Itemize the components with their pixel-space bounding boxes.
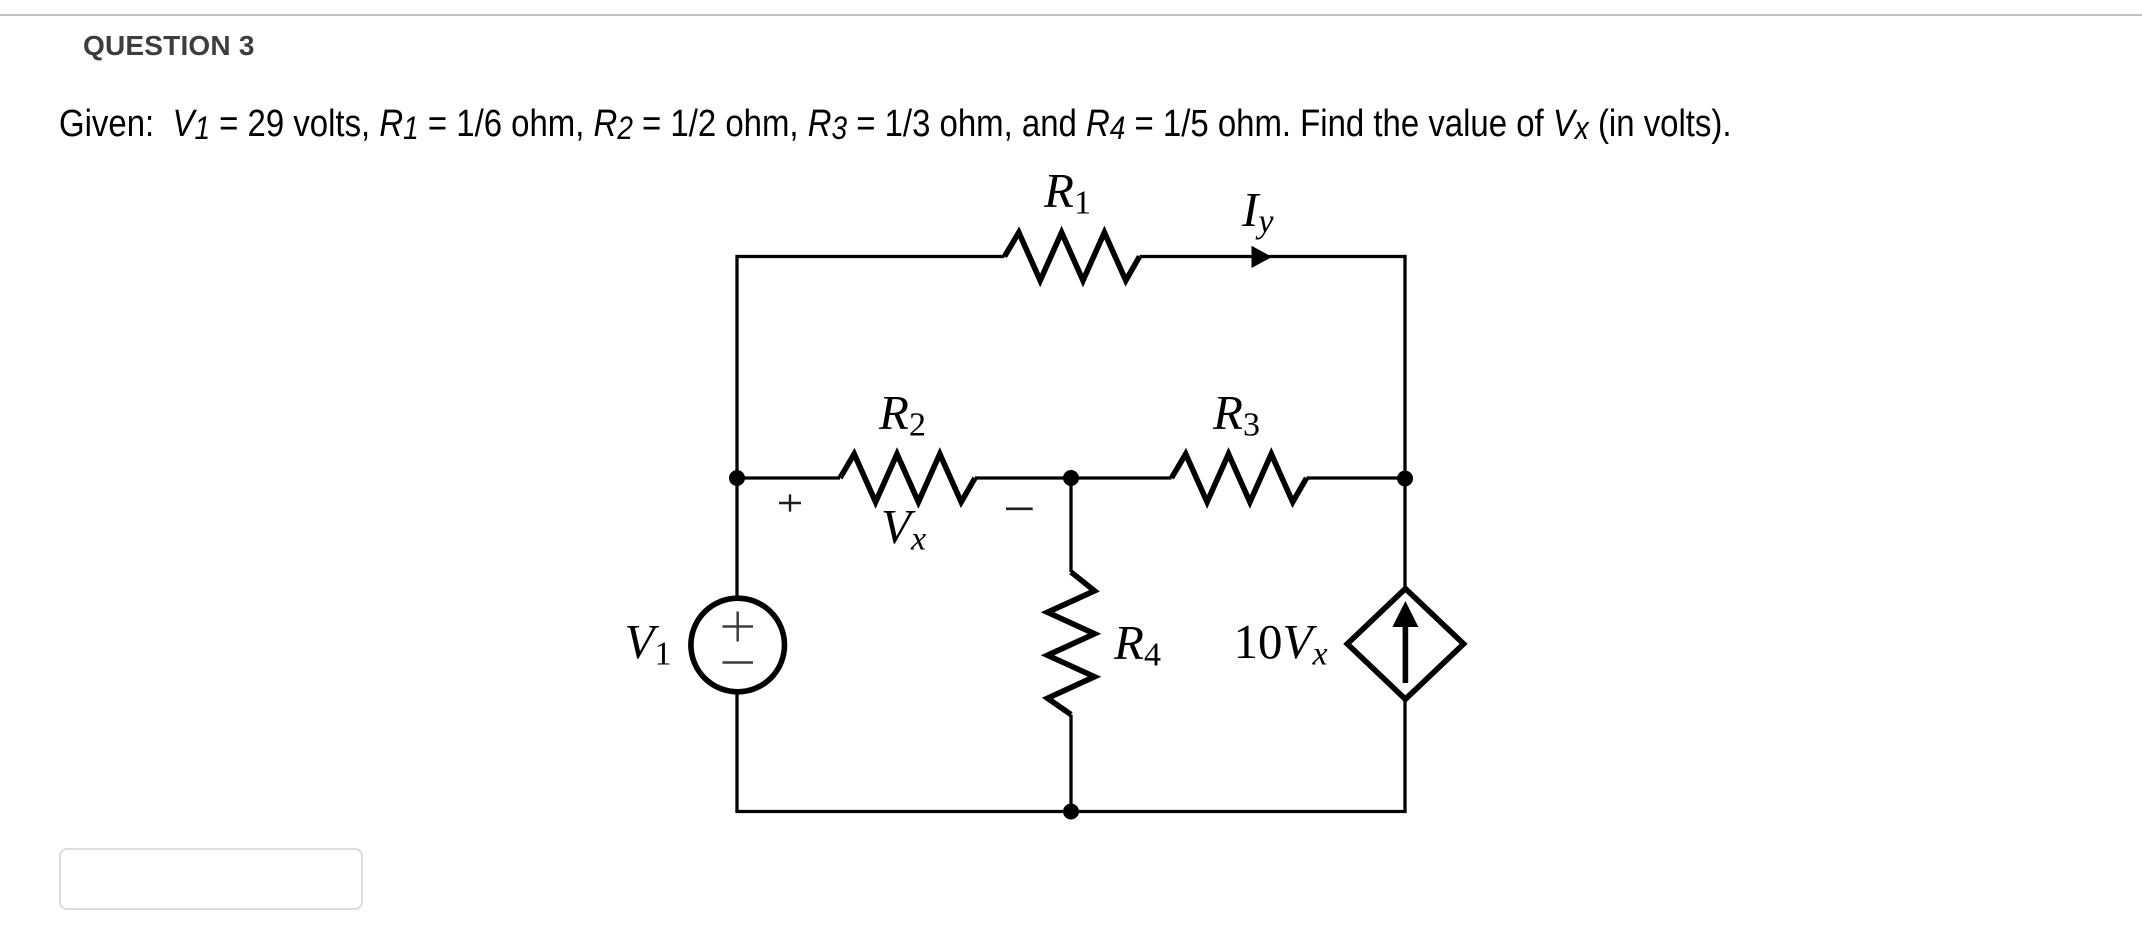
- wire middle horizontal segment a: [737, 476, 840, 479]
- wire top-right horizontal: [1140, 255, 1406, 258]
- svg-text:R4: R4: [1113, 615, 1161, 674]
- current arrow Iy: [1252, 246, 1273, 268]
- resistor R3: [1172, 454, 1307, 502]
- svg-text:Iy: Iy: [1241, 182, 1274, 241]
- svg-text:V1: V1: [625, 614, 672, 673]
- svg-text:R2: R2: [878, 385, 926, 444]
- resistor R4: [1048, 572, 1095, 715]
- wire right vertical bottom: [1403, 699, 1406, 811]
- minus label of Vx: [1006, 507, 1033, 510]
- arrow inside dependent source: [1403, 625, 1409, 683]
- plus label of Vx: [779, 494, 801, 511]
- wire middle horizontal segment c: [1307, 476, 1406, 479]
- wire left vertical top: [735, 255, 738, 597]
- question text: [59, 105, 1732, 143]
- wire top-left horizontal: [737, 255, 1005, 258]
- answer input box: [59, 848, 363, 910]
- node dot middle: [1063, 470, 1079, 486]
- plus sign inside V1: [723, 612, 754, 642]
- node dot right: [1397, 471, 1413, 487]
- wire middle horizontal segment b: [975, 476, 1172, 479]
- dependent current source diamond: [1347, 589, 1463, 700]
- wire left vertical bottom: [735, 694, 738, 812]
- svg-text:R3: R3: [1212, 385, 1260, 444]
- svg-text:Vx: Vx: [881, 499, 926, 558]
- resistor R2: [840, 454, 975, 502]
- voltage source V1 circle: [691, 598, 785, 692]
- svg-text:R1: R1: [1043, 163, 1091, 222]
- svg-text:10Vx: 10Vx: [1234, 614, 1328, 673]
- wire middle vertical bottom: [1069, 715, 1072, 812]
- node dot left: [729, 470, 745, 486]
- question header: [83, 32, 255, 60]
- node dot bottom: [1063, 804, 1079, 820]
- wire right vertical top: [1403, 255, 1406, 589]
- wire middle vertical top: [1069, 478, 1072, 572]
- resistor R1: [1005, 233, 1140, 281]
- top separator rule: [0, 14, 2142, 16]
- wire bottom horizontal: [735, 810, 1406, 813]
- minus sign inside V1: [723, 661, 754, 664]
